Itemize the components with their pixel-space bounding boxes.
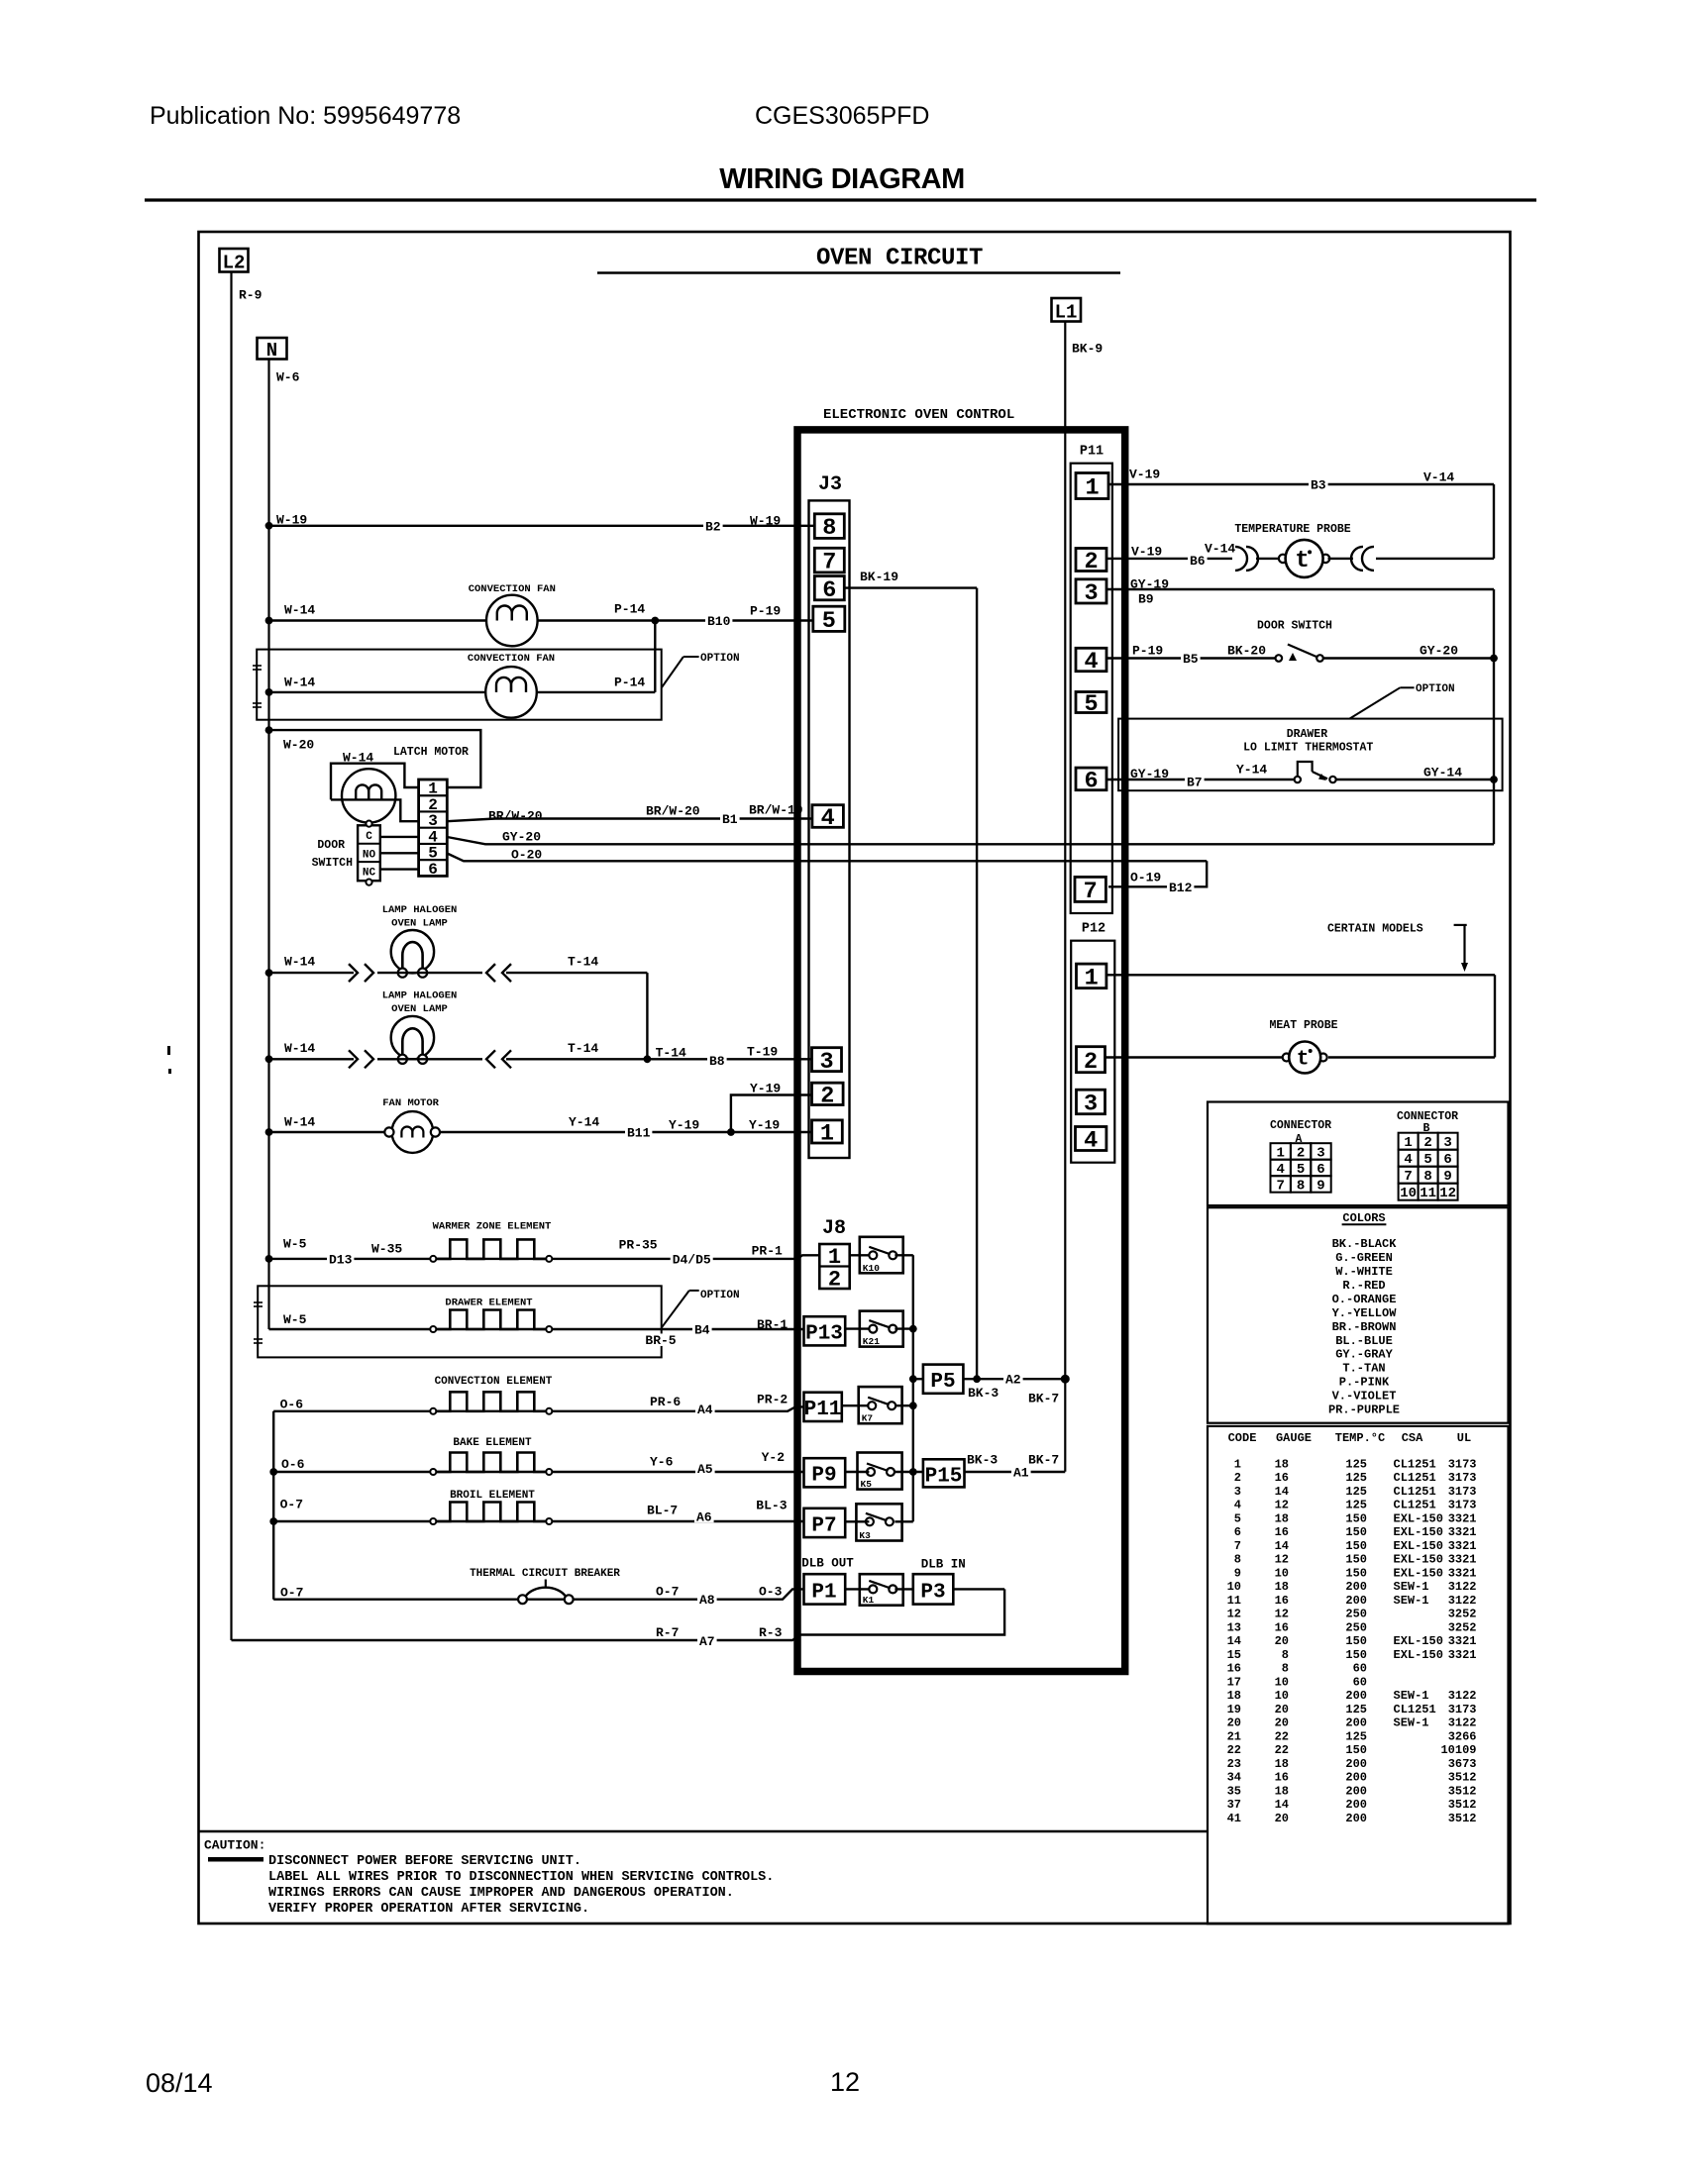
svg-text:10: 10 <box>1275 1675 1289 1689</box>
svg-text:EXL-150: EXL-150 <box>1394 1648 1443 1662</box>
svg-text:CL1251: CL1251 <box>1394 1499 1436 1512</box>
svg-text:20: 20 <box>1275 1634 1289 1648</box>
svg-text:W-35: W-35 <box>371 1241 402 1256</box>
svg-text:16: 16 <box>1275 1620 1289 1634</box>
svg-text:18: 18 <box>1275 1784 1289 1798</box>
svg-text:G.-GREEN: G.-GREEN <box>1335 1251 1393 1265</box>
svg-text:R.-RED: R.-RED <box>1342 1279 1385 1293</box>
svg-text:OPTION: OPTION <box>700 1290 740 1301</box>
svg-text:22: 22 <box>1227 1743 1241 1757</box>
svg-text:3321: 3321 <box>1448 1525 1477 1539</box>
svg-text:10: 10 <box>1400 1186 1417 1201</box>
svg-text:200: 200 <box>1345 1580 1367 1594</box>
svg-text:2: 2 <box>820 1083 834 1109</box>
svg-text:T-14: T-14 <box>656 1045 686 1060</box>
svg-text:3321: 3321 <box>1448 1634 1477 1648</box>
svg-text:2: 2 <box>1423 1135 1431 1151</box>
svg-text:TEMP.°C: TEMP.°C <box>1335 1431 1385 1445</box>
svg-text:125: 125 <box>1345 1457 1367 1471</box>
svg-text:CL1251: CL1251 <box>1394 1485 1436 1499</box>
svg-text:BK-19: BK-19 <box>860 570 898 584</box>
svg-text:20: 20 <box>1275 1716 1289 1730</box>
svg-text:CODE: CODE <box>1228 1431 1257 1445</box>
svg-text:ELECTRONIC OVEN CONTROL: ELECTRONIC OVEN CONTROL <box>823 407 1014 423</box>
svg-text:60: 60 <box>1353 1675 1367 1689</box>
svg-text:3512: 3512 <box>1448 1784 1477 1798</box>
svg-text:WARMER ZONE ELEMENT: WARMER ZONE ELEMENT <box>433 1221 552 1233</box>
svg-text:A5: A5 <box>697 1462 713 1477</box>
svg-text:B11: B11 <box>627 1125 651 1140</box>
svg-text:t: t <box>1295 548 1309 574</box>
svg-text:THERMAL CIRCUIT BREAKER: THERMAL CIRCUIT BREAKER <box>470 1568 620 1580</box>
svg-text:V-19: V-19 <box>1129 467 1160 481</box>
svg-text:14: 14 <box>1227 1634 1241 1648</box>
svg-text:W.-WHITE: W.-WHITE <box>1335 1265 1393 1279</box>
svg-text:BR/W-20: BR/W-20 <box>488 808 543 823</box>
svg-text:A8: A8 <box>699 1593 715 1608</box>
svg-text:P.-PINK: P.-PINK <box>1339 1376 1390 1390</box>
svg-text:8: 8 <box>1234 1553 1241 1567</box>
svg-text:P1: P1 <box>811 1582 836 1605</box>
svg-text:1: 1 <box>1085 475 1099 502</box>
svg-text:A6: A6 <box>696 1509 712 1524</box>
svg-text:8: 8 <box>1282 1648 1289 1662</box>
svg-text:P-19: P-19 <box>1132 643 1163 658</box>
svg-text:BL-7: BL-7 <box>647 1503 678 1517</box>
svg-text:PR-1: PR-1 <box>752 1243 783 1258</box>
svg-text:OPTION: OPTION <box>1416 683 1455 695</box>
svg-text:GY-20: GY-20 <box>1420 643 1458 658</box>
svg-text:PR-2: PR-2 <box>757 1392 788 1406</box>
svg-text:15: 15 <box>1227 1648 1241 1662</box>
svg-text:P11: P11 <box>804 1399 842 1421</box>
svg-text:DISCONNECT POWER BEFORE SERVIC: DISCONNECT POWER BEFORE SERVICING UNIT. <box>268 1854 581 1869</box>
svg-text:16: 16 <box>1275 1594 1289 1608</box>
svg-text:20: 20 <box>1227 1716 1241 1730</box>
svg-text:3: 3 <box>1443 1135 1451 1151</box>
svg-text:14: 14 <box>1275 1539 1289 1553</box>
svg-text:3321: 3321 <box>1448 1511 1477 1525</box>
svg-text:8: 8 <box>1297 1178 1305 1194</box>
svg-text:CL1251: CL1251 <box>1394 1457 1436 1471</box>
svg-text:B6: B6 <box>1190 554 1206 569</box>
svg-text:150: 150 <box>1345 1566 1367 1580</box>
svg-text:9: 9 <box>1443 1169 1451 1185</box>
svg-text:SEW-1: SEW-1 <box>1394 1594 1429 1608</box>
svg-text:3: 3 <box>1084 1092 1098 1118</box>
svg-text:W-19: W-19 <box>276 512 307 527</box>
svg-text:Y-19: Y-19 <box>669 1117 699 1132</box>
svg-text:GAUGE: GAUGE <box>1276 1431 1312 1445</box>
svg-text:BK-3: BK-3 <box>968 1386 999 1401</box>
svg-text:200: 200 <box>1345 1689 1367 1703</box>
svg-text:V.-VIOLET: V.-VIOLET <box>1332 1390 1397 1404</box>
svg-text:250: 250 <box>1345 1608 1367 1621</box>
svg-text:BR/W-20: BR/W-20 <box>646 803 700 818</box>
svg-text:O-3: O-3 <box>759 1584 783 1599</box>
svg-text:3512: 3512 <box>1448 1771 1477 1785</box>
svg-text:60: 60 <box>1353 1662 1367 1676</box>
svg-text:23: 23 <box>1227 1757 1241 1771</box>
svg-text:1: 1 <box>1085 965 1099 991</box>
svg-text:T-19: T-19 <box>747 1044 778 1059</box>
svg-text:3122: 3122 <box>1448 1716 1477 1730</box>
svg-text:GY.-GRAY: GY.-GRAY <box>1335 1348 1393 1362</box>
svg-text:3173: 3173 <box>1448 1471 1477 1485</box>
svg-text:R-7: R-7 <box>656 1625 679 1640</box>
svg-text:16: 16 <box>1275 1471 1289 1485</box>
svg-text:EXL-150: EXL-150 <box>1394 1566 1443 1580</box>
svg-text:18: 18 <box>1227 1689 1241 1703</box>
svg-text:K1: K1 <box>863 1595 875 1606</box>
svg-text:12: 12 <box>1275 1553 1289 1567</box>
svg-text:9: 9 <box>1234 1566 1241 1580</box>
svg-text:Y.-YELLOW: Y.-YELLOW <box>1332 1306 1398 1320</box>
svg-text:3673: 3673 <box>1448 1757 1477 1771</box>
svg-text:Y-19: Y-19 <box>750 1081 781 1095</box>
svg-text:FAN MOTOR: FAN MOTOR <box>382 1097 439 1109</box>
svg-text:N: N <box>266 340 277 362</box>
svg-text:O-19: O-19 <box>1130 870 1161 884</box>
svg-text:CL1251: CL1251 <box>1394 1703 1436 1716</box>
svg-text:41: 41 <box>1227 1812 1241 1825</box>
svg-text:12: 12 <box>1275 1499 1289 1512</box>
svg-text:18: 18 <box>1275 1580 1289 1594</box>
svg-text:V-19: V-19 <box>1131 544 1162 559</box>
svg-text:2: 2 <box>1084 549 1098 575</box>
svg-text:BAKE ELEMENT: BAKE ELEMENT <box>453 1437 532 1449</box>
svg-text:BK-7: BK-7 <box>1028 1391 1059 1405</box>
svg-text:7: 7 <box>822 550 836 576</box>
svg-text:Y-14: Y-14 <box>1236 762 1267 777</box>
svg-text:B8: B8 <box>709 1054 725 1069</box>
svg-text:8: 8 <box>1282 1662 1289 1676</box>
svg-text:19: 19 <box>1227 1703 1241 1716</box>
svg-text:NO: NO <box>363 849 376 861</box>
svg-text:3173: 3173 <box>1448 1703 1477 1716</box>
svg-text:22: 22 <box>1275 1743 1289 1757</box>
svg-text:200: 200 <box>1345 1798 1367 1812</box>
svg-text:P13: P13 <box>805 1323 843 1346</box>
svg-text:BK-3: BK-3 <box>967 1452 998 1467</box>
svg-text:OPTION: OPTION <box>700 653 740 665</box>
svg-text:150: 150 <box>1345 1553 1367 1567</box>
svg-text:DRAWER: DRAWER <box>1287 728 1328 741</box>
svg-text:K3: K3 <box>859 1530 871 1541</box>
svg-text:BR-5: BR-5 <box>645 1333 676 1348</box>
svg-text:200: 200 <box>1345 1716 1367 1730</box>
svg-text:B9: B9 <box>1138 591 1154 606</box>
svg-text:A2: A2 <box>1005 1373 1021 1388</box>
svg-text:2: 2 <box>828 1268 841 1293</box>
svg-text:B10: B10 <box>707 614 731 629</box>
svg-text:SWITCH: SWITCH <box>312 857 354 870</box>
svg-text:7: 7 <box>1234 1539 1241 1553</box>
svg-text:PR-6: PR-6 <box>650 1395 681 1409</box>
svg-text:SEW-1: SEW-1 <box>1394 1689 1429 1703</box>
svg-text:COLORS: COLORS <box>1342 1211 1385 1225</box>
svg-text:UL: UL <box>1457 1431 1471 1445</box>
svg-text:P5: P5 <box>930 1371 955 1394</box>
svg-text:22: 22 <box>1275 1729 1289 1743</box>
svg-text:20: 20 <box>1275 1703 1289 1716</box>
svg-text:A7: A7 <box>699 1634 715 1649</box>
svg-text:t: t <box>1297 1049 1310 1072</box>
svg-text:34: 34 <box>1227 1771 1241 1785</box>
svg-text:BR/W-19: BR/W-19 <box>749 802 803 817</box>
svg-text:EXL-150: EXL-150 <box>1394 1511 1443 1525</box>
svg-text:5: 5 <box>1423 1152 1431 1168</box>
svg-text:200: 200 <box>1345 1812 1367 1825</box>
svg-text:W-14: W-14 <box>284 954 315 969</box>
svg-text:250: 250 <box>1345 1620 1367 1634</box>
svg-text:16: 16 <box>1227 1662 1241 1676</box>
svg-text:150: 150 <box>1345 1539 1367 1553</box>
svg-text:4: 4 <box>1084 1128 1098 1155</box>
svg-text:T-14: T-14 <box>568 954 598 969</box>
svg-text:LO LIMIT THERMOSTAT: LO LIMIT THERMOSTAT <box>1243 741 1373 754</box>
svg-text:4: 4 <box>1084 649 1098 676</box>
svg-text:10: 10 <box>1275 1566 1289 1580</box>
svg-text:Y-2: Y-2 <box>762 1450 786 1465</box>
svg-text:37: 37 <box>1227 1798 1241 1812</box>
svg-text:OVEN LAMP: OVEN LAMP <box>391 1003 448 1015</box>
svg-text:10: 10 <box>1275 1689 1289 1703</box>
svg-text:7: 7 <box>1404 1169 1412 1185</box>
svg-text:200: 200 <box>1345 1594 1367 1608</box>
svg-text:Y-6: Y-6 <box>650 1454 674 1469</box>
svg-text:GY-14: GY-14 <box>1423 765 1462 780</box>
svg-text:A4: A4 <box>697 1403 713 1417</box>
svg-text:LATCH MOTOR: LATCH MOTOR <box>393 746 469 759</box>
svg-text:VERIFY PROPER OPERATION AFTER: VERIFY PROPER OPERATION AFTER SERVICING. <box>268 1902 589 1917</box>
svg-text:DLB OUT: DLB OUT <box>801 1556 854 1570</box>
svg-text:BROIL ELEMENT: BROIL ELEMENT <box>450 1490 535 1502</box>
svg-text:1: 1 <box>828 1245 841 1270</box>
svg-text:P3: P3 <box>920 1582 945 1605</box>
svg-text:125: 125 <box>1345 1499 1367 1512</box>
svg-text:K7: K7 <box>862 1413 874 1424</box>
svg-text:18: 18 <box>1275 1757 1289 1771</box>
svg-text:P-14: P-14 <box>614 601 645 616</box>
svg-text:5: 5 <box>1234 1511 1241 1525</box>
svg-text:11: 11 <box>1227 1594 1241 1608</box>
svg-text:BK-20: BK-20 <box>1227 643 1266 658</box>
svg-text:CONVECTION FAN: CONVECTION FAN <box>468 653 555 665</box>
svg-text:5: 5 <box>1084 691 1098 718</box>
svg-text:CONNECTOR: CONNECTOR <box>1270 1119 1331 1132</box>
svg-text:13: 13 <box>1227 1620 1241 1634</box>
svg-text:14: 14 <box>1275 1485 1289 1499</box>
svg-text:6: 6 <box>822 577 836 604</box>
svg-text:3122: 3122 <box>1448 1689 1477 1703</box>
svg-text:O-6: O-6 <box>280 1397 304 1411</box>
svg-text:18: 18 <box>1275 1511 1289 1525</box>
svg-text:4: 4 <box>1404 1152 1412 1168</box>
svg-text:3: 3 <box>819 1049 833 1076</box>
svg-text:J8: J8 <box>822 1217 846 1240</box>
svg-text:P12: P12 <box>1082 922 1105 937</box>
svg-text:12: 12 <box>830 2067 860 2097</box>
svg-text:DRAWER ELEMENT: DRAWER ELEMENT <box>445 1298 532 1309</box>
svg-text:D4/D5: D4/D5 <box>673 1252 711 1267</box>
svg-text:GY-20: GY-20 <box>502 829 541 844</box>
svg-text:P9: P9 <box>811 1465 836 1488</box>
svg-text:1: 1 <box>1404 1135 1412 1151</box>
svg-text:NC: NC <box>363 868 376 880</box>
svg-text:B4: B4 <box>694 1322 710 1337</box>
svg-text:3321: 3321 <box>1448 1553 1477 1567</box>
svg-text:6: 6 <box>1234 1525 1241 1539</box>
svg-text:B2: B2 <box>705 519 721 534</box>
svg-text:16: 16 <box>1275 1771 1289 1785</box>
svg-text:W-5: W-5 <box>283 1236 307 1251</box>
svg-text:150: 150 <box>1345 1525 1367 1539</box>
svg-text:R-9: R-9 <box>239 287 263 302</box>
svg-text:EXL-150: EXL-150 <box>1394 1553 1443 1567</box>
svg-text:T-14: T-14 <box>568 1041 598 1056</box>
svg-text:2: 2 <box>1084 1049 1098 1076</box>
svg-text:2: 2 <box>1234 1471 1241 1485</box>
svg-text:200: 200 <box>1345 1757 1367 1771</box>
svg-text:200: 200 <box>1345 1784 1367 1798</box>
svg-text:3173: 3173 <box>1448 1499 1477 1512</box>
svg-text:18: 18 <box>1275 1457 1289 1471</box>
svg-text:08/14: 08/14 <box>146 2068 213 2098</box>
svg-text:GY-19: GY-19 <box>1130 767 1169 781</box>
svg-text:125: 125 <box>1345 1729 1367 1743</box>
svg-text:17: 17 <box>1227 1675 1241 1689</box>
svg-text:W-6: W-6 <box>276 369 300 384</box>
svg-text:4: 4 <box>1234 1499 1241 1512</box>
svg-text:EXL-150: EXL-150 <box>1394 1539 1443 1553</box>
svg-text:3321: 3321 <box>1448 1566 1477 1580</box>
svg-text:6: 6 <box>1443 1152 1451 1168</box>
svg-text:BL-3: BL-3 <box>756 1498 787 1512</box>
svg-text:R-3: R-3 <box>759 1625 783 1640</box>
svg-text:200: 200 <box>1345 1771 1367 1785</box>
svg-text:DOOR: DOOR <box>317 839 345 852</box>
svg-text:P11: P11 <box>1080 445 1104 460</box>
svg-text:3512: 3512 <box>1448 1812 1477 1825</box>
svg-text:O-7: O-7 <box>280 1585 303 1600</box>
svg-text:9: 9 <box>1316 1178 1324 1194</box>
svg-text:CSA: CSA <box>1402 1431 1423 1445</box>
svg-text:150: 150 <box>1345 1743 1367 1757</box>
svg-text:12: 12 <box>1439 1186 1456 1201</box>
svg-text:8: 8 <box>822 515 836 542</box>
svg-text:B1: B1 <box>722 812 738 827</box>
svg-text:SEW-1: SEW-1 <box>1394 1716 1429 1730</box>
svg-text:10: 10 <box>1227 1580 1241 1594</box>
svg-text:BK-7: BK-7 <box>1028 1452 1059 1467</box>
svg-text:P-14: P-14 <box>614 675 645 689</box>
svg-text:35: 35 <box>1227 1784 1241 1798</box>
svg-text:125: 125 <box>1345 1485 1367 1499</box>
svg-text:6: 6 <box>1084 769 1098 795</box>
svg-text:3122: 3122 <box>1448 1594 1477 1608</box>
svg-text:CL1251: CL1251 <box>1394 1471 1436 1485</box>
svg-text:3122: 3122 <box>1448 1580 1477 1594</box>
svg-text:12: 12 <box>1275 1608 1289 1621</box>
svg-text:B12: B12 <box>1169 881 1193 895</box>
svg-text:W-14: W-14 <box>284 1114 315 1129</box>
svg-text:B7: B7 <box>1187 775 1203 789</box>
svg-text:K10: K10 <box>863 1263 880 1274</box>
svg-text:3252: 3252 <box>1448 1608 1477 1621</box>
svg-text:3173: 3173 <box>1448 1457 1477 1471</box>
svg-text:D13: D13 <box>329 1252 353 1267</box>
svg-text:OVEN LAMP: OVEN LAMP <box>391 917 448 929</box>
svg-text:L1: L1 <box>1055 302 1078 324</box>
svg-text:5: 5 <box>822 608 836 635</box>
svg-text:WIRING DIAGRAM: WIRING DIAGRAM <box>719 163 965 195</box>
svg-text:LAMP HALOGEN: LAMP HALOGEN <box>382 904 458 916</box>
svg-text:CONVECTION FAN: CONVECTION FAN <box>469 583 556 595</box>
svg-text:12: 12 <box>1227 1608 1241 1621</box>
svg-text:W-20: W-20 <box>283 737 314 752</box>
svg-text:3: 3 <box>1234 1485 1241 1499</box>
svg-text:L2: L2 <box>223 253 246 274</box>
svg-text:LAMP HALOGEN: LAMP HALOGEN <box>382 990 458 1002</box>
svg-text:16: 16 <box>1275 1525 1289 1539</box>
svg-text:PR.-PURPLE: PR.-PURPLE <box>1328 1404 1400 1417</box>
svg-text:7: 7 <box>1084 879 1098 905</box>
svg-text:125: 125 <box>1345 1471 1367 1485</box>
svg-text:V-14: V-14 <box>1423 469 1454 484</box>
svg-text:1: 1 <box>820 1121 834 1148</box>
svg-text:GY-19: GY-19 <box>1130 576 1169 591</box>
svg-text:W-5: W-5 <box>283 1312 307 1327</box>
svg-text:PR-35: PR-35 <box>619 1237 658 1252</box>
svg-text:TEMPERATURE PROBE: TEMPERATURE PROBE <box>1234 523 1350 536</box>
svg-text:P-19: P-19 <box>750 603 781 618</box>
svg-text:CERTAIN MODELS: CERTAIN MODELS <box>1327 922 1423 935</box>
svg-text:OVEN CIRCUIT: OVEN CIRCUIT <box>816 246 983 272</box>
svg-text:K5: K5 <box>861 1479 873 1490</box>
svg-text:3252: 3252 <box>1448 1620 1477 1634</box>
svg-text:WIRINGS ERRORS CAN CAUSE IMPRO: WIRINGS ERRORS CAN CAUSE IMPROPER AND DA… <box>268 1886 734 1901</box>
svg-text:20: 20 <box>1275 1812 1289 1825</box>
svg-text:125: 125 <box>1345 1703 1367 1716</box>
svg-text:O-7: O-7 <box>280 1497 303 1511</box>
svg-text:3321: 3321 <box>1448 1539 1477 1553</box>
svg-text:21: 21 <box>1227 1729 1241 1743</box>
svg-text:O-20: O-20 <box>511 847 542 862</box>
svg-text:W-14: W-14 <box>284 602 315 617</box>
svg-text:BR-1: BR-1 <box>757 1317 788 1332</box>
svg-text:Y-19: Y-19 <box>749 1117 780 1132</box>
svg-text:CAUTION:: CAUTION: <box>204 1837 265 1852</box>
svg-text:J3: J3 <box>818 473 842 496</box>
svg-text:7: 7 <box>1276 1178 1284 1194</box>
svg-text:10109: 10109 <box>1440 1743 1476 1757</box>
svg-text:3: 3 <box>1084 580 1098 607</box>
svg-text:CONVECTION ELEMENT: CONVECTION ELEMENT <box>435 1376 553 1388</box>
svg-text:3266: 3266 <box>1448 1729 1477 1743</box>
svg-text:3321: 3321 <box>1448 1648 1477 1662</box>
svg-text:CGES3065PFD: CGES3065PFD <box>755 102 929 130</box>
svg-text:4: 4 <box>821 805 835 832</box>
svg-text:W-14: W-14 <box>284 675 315 689</box>
svg-text:O-7: O-7 <box>656 1584 679 1599</box>
svg-text:B5: B5 <box>1183 652 1199 667</box>
svg-text:BK.-BLACK: BK.-BLACK <box>1332 1237 1398 1251</box>
svg-text:SEW-1: SEW-1 <box>1394 1580 1429 1594</box>
svg-text:3173: 3173 <box>1448 1485 1477 1499</box>
svg-text:B3: B3 <box>1311 477 1326 492</box>
svg-text:T.-TAN: T.-TAN <box>1342 1362 1385 1376</box>
